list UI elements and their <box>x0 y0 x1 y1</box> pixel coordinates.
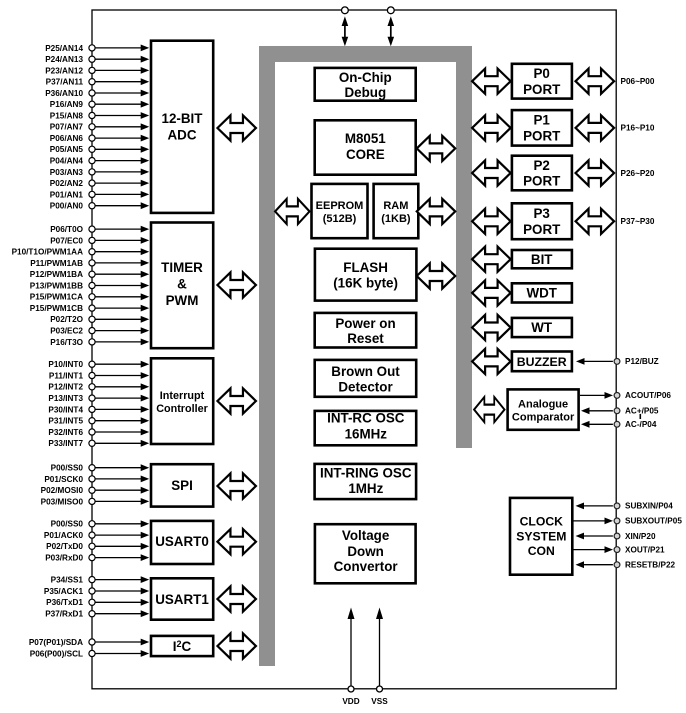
bus arrow Analogue Comparator <box>474 397 504 422</box>
pin P36/TxD1 <box>46 598 149 607</box>
vertical double arrow 1 <box>342 16 349 46</box>
top pin node 2 <box>387 7 394 14</box>
pin P11/INT1 <box>49 371 149 380</box>
block USART1 <box>151 578 213 619</box>
svg-text:(512B): (512B) <box>323 213 357 225</box>
pin P15/AN8 <box>50 111 149 120</box>
pin P03/RxD0 <box>45 554 149 563</box>
svg-text:P16~P10: P16~P10 <box>621 124 655 133</box>
svg-text:(16K byte): (16K byte) <box>333 276 398 291</box>
bus arrow P3 PORT <box>472 209 511 234</box>
svg-text:Brown Out: Brown Out <box>331 364 400 379</box>
svg-text:P36/AN10: P36/AN10 <box>45 89 83 98</box>
pin P11/PWM1AB <box>30 259 149 268</box>
pin P07(P01)/SDA <box>29 638 149 647</box>
svg-text:Interrupt: Interrupt <box>160 390 205 402</box>
block BUZZER <box>512 352 572 372</box>
block BIT <box>512 250 572 268</box>
pin SUBXOUT/P05 <box>574 517 683 526</box>
pin P07/EC0 <box>50 236 149 245</box>
block I2C <box>151 636 213 656</box>
block INT-RING OSC 1MHz <box>315 464 417 499</box>
bus arrow BUZZER <box>472 349 511 374</box>
svg-text:INT-RING OSC: INT-RING OSC <box>320 465 412 480</box>
pin XOUT/P21 <box>574 545 666 554</box>
svg-text:Reset: Reset <box>347 331 384 346</box>
svg-text:P04/AN4: P04/AN4 <box>50 157 84 166</box>
block On-Chip Debug <box>315 68 416 101</box>
pin AC+/P05 <box>581 407 659 416</box>
vertical double arrow 2 <box>388 16 395 46</box>
block INT-RC OSC 16MHz <box>315 411 417 445</box>
svg-text:1MHz: 1MHz <box>348 481 383 496</box>
pin P34/SS1 <box>51 576 150 585</box>
svg-text:P03/MISO0: P03/MISO0 <box>41 497 84 506</box>
svg-text:TIMER: TIMER <box>161 260 203 275</box>
svg-text:Convertor: Convertor <box>334 559 399 574</box>
svg-text:P06~P00: P06~P00 <box>621 77 655 86</box>
svg-text:Controller: Controller <box>156 403 208 415</box>
svg-text:P31/INT5: P31/INT5 <box>48 417 83 426</box>
pin P16/T3O <box>50 338 149 347</box>
svg-text:P05/AN5: P05/AN5 <box>50 145 84 154</box>
bus arrow EEPROM <box>275 199 309 224</box>
bus arrow P0 PORT <box>472 69 511 94</box>
svg-text:P16/AN9: P16/AN9 <box>50 100 84 109</box>
svg-text:VDD: VDD <box>342 697 359 706</box>
svg-text:PORT: PORT <box>523 82 561 97</box>
svg-text:M8051: M8051 <box>345 131 386 146</box>
svg-text:PORT: PORT <box>523 174 561 189</box>
block Analogue Comparator <box>508 389 579 429</box>
svg-text:Analogue: Analogue <box>518 398 568 410</box>
svg-text:P36/TxD1: P36/TxD1 <box>46 598 83 607</box>
svg-text:FLASH: FLASH <box>343 260 388 275</box>
bus arrow TIMER-PWM <box>217 272 256 297</box>
block Brown Out Detector <box>315 360 417 397</box>
svg-text:Voltage: Voltage <box>342 528 389 543</box>
svg-text:P02/AN2: P02/AN2 <box>50 179 84 188</box>
pin P12/INT2 <box>48 383 149 392</box>
pin P25/AN14 <box>45 44 149 53</box>
svg-text:P01/ACK0: P01/ACK0 <box>44 531 84 540</box>
pin P37/AN11 <box>46 78 150 87</box>
svg-text:PORT: PORT <box>523 222 561 237</box>
svg-text:Debug: Debug <box>344 85 386 100</box>
pin P00/SS0 <box>51 520 150 529</box>
pin P02/T2O <box>50 315 149 324</box>
svg-text:P37/AN11: P37/AN11 <box>46 78 84 87</box>
pin P35/ACK1 <box>44 587 149 596</box>
svg-text:P32/INT6: P32/INT6 <box>48 428 83 437</box>
pin P02/MOSI0 <box>41 486 150 495</box>
pin P24/AN13 <box>45 55 149 64</box>
pin P13/INT3 <box>48 394 149 403</box>
svg-text:P25/AN14: P25/AN14 <box>45 44 83 53</box>
svg-text:P0: P0 <box>534 66 550 81</box>
chip boundary frame <box>92 10 616 689</box>
svg-text:USART1: USART1 <box>155 592 209 607</box>
svg-text:CORE: CORE <box>346 147 385 162</box>
block P3 PORT <box>512 203 572 239</box>
svg-text:VSS: VSS <box>371 697 388 706</box>
pin P31/INT5 <box>48 417 149 426</box>
pin P06/AN6 <box>50 134 149 143</box>
pin P05/AN5 <box>50 145 149 154</box>
bus arrow RAM <box>417 199 456 224</box>
svg-text:P10/INT0: P10/INT0 <box>48 360 83 369</box>
svg-text:P23/AN12: P23/AN12 <box>45 66 83 75</box>
svg-text:P37/RxD1: P37/RxD1 <box>45 610 83 619</box>
svg-text:P07/EC0: P07/EC0 <box>50 236 83 245</box>
bus arrow Interrupt Controller <box>217 388 256 413</box>
block EEPROM 512B <box>312 184 368 238</box>
svg-text:P37~P30: P37~P30 <box>621 217 655 226</box>
pin P02/AN2 <box>50 179 149 188</box>
power pin VSS <box>371 608 388 707</box>
svg-text:P30/INT4: P30/INT4 <box>48 405 83 414</box>
block P0 PORT <box>512 64 572 99</box>
port arrow P1 <box>576 115 615 140</box>
bus arrow P2 PORT <box>472 160 511 185</box>
pin P03/AN3 <box>50 168 149 177</box>
port arrow P2 <box>576 160 615 185</box>
svg-text:12-BIT: 12-BIT <box>162 111 204 126</box>
svg-text:P01/SCK0: P01/SCK0 <box>44 475 83 484</box>
bus arrow USART0 <box>217 529 256 554</box>
svg-text:P35/ACK1: P35/ACK1 <box>44 587 84 596</box>
svg-text:SPI: SPI <box>171 478 193 493</box>
pin P12/BUZ <box>576 357 659 366</box>
pin P12/PWM1BA <box>30 270 149 279</box>
svg-text:P34/SS1: P34/SS1 <box>51 576 84 585</box>
svg-text:Comparator: Comparator <box>512 411 575 423</box>
internal bus (gray) <box>259 46 472 666</box>
block SPI <box>151 464 213 506</box>
pin RESETB/P22 <box>576 561 676 570</box>
svg-text:(1KB): (1KB) <box>381 213 411 225</box>
pin P01/AN1 <box>50 190 149 199</box>
svg-text:&: & <box>177 277 187 292</box>
pin AC-/P04 <box>581 420 657 429</box>
svg-text:P02/T2O: P02/T2O <box>50 315 83 324</box>
svg-text:CLOCK: CLOCK <box>520 515 564 529</box>
svg-text:SUBXOUT/P05: SUBXOUT/P05 <box>625 517 682 526</box>
block WDT <box>512 283 572 302</box>
pin P13/PWM1BB <box>30 281 149 290</box>
svg-text:BUZZER: BUZZER <box>517 355 567 369</box>
svg-text:P07/AN7: P07/AN7 <box>50 123 84 132</box>
pin P00/SS0 <box>51 464 150 473</box>
svg-text:Power on: Power on <box>335 316 395 331</box>
bus arrow BIT <box>472 247 511 272</box>
svg-text:P00/SS0: P00/SS0 <box>51 464 84 473</box>
block RAM 1KB <box>374 184 419 238</box>
svg-text:P15/PWM1CA: P15/PWM1CA <box>30 293 83 302</box>
svg-text:AC+/P05: AC+/P05 <box>625 407 659 416</box>
bus arrow USART1 <box>217 586 256 611</box>
pin P01/ACK0 <box>44 531 149 540</box>
pin P06/T0O <box>50 225 149 234</box>
svg-text:P07(P01)/SDA: P07(P01)/SDA <box>29 638 83 647</box>
top pin node 1 <box>342 7 349 14</box>
port arrow P3 <box>576 209 615 234</box>
block Voltage Down Convertor <box>315 524 416 583</box>
svg-text:P24/AN13: P24/AN13 <box>45 55 83 64</box>
pin P00/AN0 <box>50 202 149 211</box>
svg-text:ADC: ADC <box>167 128 196 143</box>
pin SUBXIN/P04 <box>576 502 674 511</box>
pin P23/AN12 <box>45 66 149 75</box>
svg-text:P3: P3 <box>534 206 550 221</box>
svg-text:P13/INT3: P13/INT3 <box>48 394 83 403</box>
svg-text:P06/AN6: P06/AN6 <box>50 134 84 143</box>
svg-text:RAM: RAM <box>383 200 408 212</box>
svg-text:SUBXIN/P04: SUBXIN/P04 <box>625 502 673 511</box>
pin P15/PWM1CA <box>30 293 149 302</box>
svg-text:RESETB/P22: RESETB/P22 <box>625 561 675 570</box>
bus arrow SPI <box>217 473 256 498</box>
svg-text:INT-RC OSC: INT-RC OSC <box>327 411 405 426</box>
block 12-BIT ADC <box>151 41 213 213</box>
svg-text:P16/T3O: P16/T3O <box>50 338 83 347</box>
pin P02/TxD0 <box>46 542 149 551</box>
svg-text:AC-/P04: AC-/P04 <box>625 420 657 429</box>
svg-text:I2C: I2C <box>173 639 192 654</box>
block P1 PORT <box>512 110 572 146</box>
pin P07/AN7 <box>50 123 149 132</box>
svg-text:P33/INT7: P33/INT7 <box>48 439 83 448</box>
svg-text:P06(P00)/SCL: P06(P00)/SCL <box>30 649 83 658</box>
svg-text:P03/AN3: P03/AN3 <box>50 168 84 177</box>
svg-text:ACOUT/P06: ACOUT/P06 <box>625 391 671 400</box>
svg-text:P10/T1O/PWM1AA: P10/T1O/PWM1AA <box>12 248 84 257</box>
svg-text:CON: CON <box>528 544 555 558</box>
block USART0 <box>151 521 213 564</box>
pin P30/INT4 <box>48 405 149 414</box>
block Power on Reset <box>315 313 417 348</box>
bus arrow FLASH <box>417 263 456 288</box>
svg-text:P01/AN1: P01/AN1 <box>50 190 84 199</box>
pin P37/RxD1 <box>45 610 149 619</box>
bus arrow WDT <box>472 280 511 305</box>
svg-text:BIT: BIT <box>531 252 553 267</box>
pin P36/AN10 <box>45 89 149 98</box>
svg-text:P03/RxD0: P03/RxD0 <box>45 554 83 563</box>
svg-text:EEPROM: EEPROM <box>316 200 364 212</box>
svg-text:P15/AN8: P15/AN8 <box>50 111 84 120</box>
svg-text:P00/AN0: P00/AN0 <box>50 202 84 211</box>
pin P01/SCK0 <box>44 475 149 484</box>
svg-text:P12/BUZ: P12/BUZ <box>625 357 659 366</box>
pin P33/INT7 <box>48 439 149 448</box>
svg-text:WDT: WDT <box>526 286 557 301</box>
pin P03/MISO0 <box>41 497 150 506</box>
svg-text:P13/PWM1BB: P13/PWM1BB <box>30 281 83 290</box>
svg-text:16MHz: 16MHz <box>345 427 388 442</box>
pin P10/INT0 <box>48 360 149 369</box>
svg-text:P15/PWM1CB: P15/PWM1CB <box>30 304 83 313</box>
svg-text:PORT: PORT <box>523 128 561 143</box>
svg-text:P2: P2 <box>534 158 550 173</box>
svg-text:On-Chip: On-Chip <box>339 70 392 85</box>
pin P06(P00)/SCL <box>30 649 149 658</box>
pin XIN/P20 <box>576 532 656 541</box>
pin P03/EC2 <box>50 327 149 336</box>
svg-text:P00/SS0: P00/SS0 <box>51 520 84 529</box>
pin P16/AN9 <box>50 100 149 109</box>
svg-text:USART0: USART0 <box>155 534 209 549</box>
svg-text:SYSTEM: SYSTEM <box>516 530 566 544</box>
svg-text:P02/MOSI0: P02/MOSI0 <box>41 486 84 495</box>
svg-text:P26~P20: P26~P20 <box>621 169 655 178</box>
svg-text:P1: P1 <box>534 113 551 128</box>
block WT <box>512 318 572 337</box>
svg-text:P02/TxD0: P02/TxD0 <box>46 542 83 551</box>
svg-text:P12/INT2: P12/INT2 <box>48 383 83 392</box>
bus arrow P1 PORT <box>472 115 511 140</box>
svg-text:WT: WT <box>531 320 553 335</box>
power pin VDD <box>342 608 359 707</box>
svg-text:Down: Down <box>347 544 383 559</box>
bus arrow I2C <box>217 633 256 658</box>
block Interrupt Controller <box>151 358 213 444</box>
block FLASH 16K byte <box>315 249 417 301</box>
bus arrow ADC <box>217 115 256 140</box>
bus arrow M8051 CORE <box>417 136 456 161</box>
port arrow P0 <box>576 69 615 94</box>
pin P04/AN4 <box>50 157 149 166</box>
svg-text:P03/EC2: P03/EC2 <box>50 327 83 336</box>
block TIMER &amp; PWM <box>151 223 213 349</box>
svg-text:XIN/P20: XIN/P20 <box>625 532 656 541</box>
svg-text:P06/T0O: P06/T0O <box>50 225 83 234</box>
block CLOCK SYSTEM CON <box>510 498 572 575</box>
pin ACOUT/P06 <box>580 391 671 400</box>
block M8051 CORE <box>315 120 416 174</box>
block P2 PORT <box>512 156 572 191</box>
tick between AC pins <box>639 414 641 419</box>
svg-text:XOUT/P21: XOUT/P21 <box>625 545 665 554</box>
svg-text:P12/PWM1BA: P12/PWM1BA <box>30 270 83 279</box>
pin P32/INT6 <box>48 428 149 437</box>
bus arrow WT <box>472 315 511 340</box>
svg-text:Detector: Detector <box>338 380 393 395</box>
svg-text:PWM: PWM <box>166 293 199 308</box>
pin P15/PWM1CB <box>30 304 149 313</box>
svg-text:P11/INT1: P11/INT1 <box>49 371 84 380</box>
pin P10/T1O/PWM1AA <box>12 248 150 257</box>
svg-text:P11/PWM1AB: P11/PWM1AB <box>30 259 83 268</box>
